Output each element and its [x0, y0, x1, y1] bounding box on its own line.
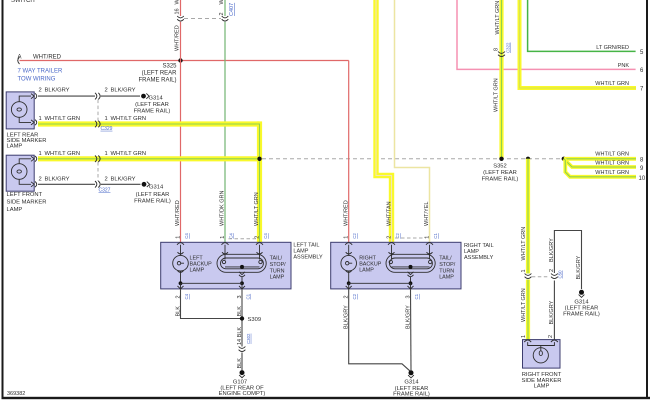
wire BLK/GRY from right front marker to G314	[553, 281, 555, 340]
splice S352	[499, 157, 503, 161]
svg-text:WHT/LT GRN: WHT/LT GRN	[45, 151, 81, 157]
wire BLK pin 2 of left tail to S309	[181, 289, 243, 319]
wire WHT/LT GRN vertical bus corner down	[257, 124, 259, 242]
pin 1 entry connector (WHT/DK GRN)	[222, 243, 229, 245]
left tail/stop/turn lamp inner shell	[221, 258, 264, 269]
wire WHT/LT GRN to pin 8	[564, 157, 636, 161]
svg-text:LAMP: LAMP	[7, 144, 23, 150]
svg-text:2: 2	[344, 295, 350, 298]
svg-text:S325: S325	[162, 64, 177, 70]
left tail lamp assembly box	[161, 242, 291, 289]
left tail/stop/turn feed wires	[225, 245, 260, 260]
svg-text:C1: C1	[433, 233, 438, 239]
svg-text:WHT/LT GRN: WHT/LT GRN	[254, 192, 260, 226]
right tail lamp assembly box	[331, 242, 461, 289]
left rear marker pin 1 connector at box	[31, 120, 37, 126]
svg-text:1: 1	[39, 116, 42, 122]
svg-text:2: 2	[548, 335, 554, 338]
inline connector C327 on WHT/LT GRN	[95, 156, 100, 163]
svg-text:1: 1	[220, 236, 226, 239]
svg-text:WHT/RED: WHT/RED	[33, 55, 62, 61]
svg-text:W: W	[219, 0, 225, 5]
wire WHT/YEL vertical	[395, 0, 430, 242]
svg-text:TOW WIRING: TOW WIRING	[18, 77, 56, 83]
svg-text:2: 2	[39, 177, 42, 183]
svg-text:(LEFT REAR: (LEFT REAR	[142, 71, 178, 77]
svg-text:TURN: TURN	[270, 268, 285, 274]
wire WHT/LT GRN to pin 10	[565, 160, 636, 177]
svg-text:C4: C4	[184, 233, 189, 239]
svg-text:WHT/LT GRN: WHT/LT GRN	[45, 116, 81, 122]
frame left border	[2, 0, 4, 398]
svg-text:WHT/LT GRN: WHT/LT GRN	[493, 78, 499, 112]
svg-text:2: 2	[549, 269, 555, 272]
svg-text:WHT/LT GRN: WHT/LT GRN	[595, 152, 629, 158]
svg-text:G314: G314	[149, 184, 164, 190]
left backup lamp wiring	[180, 245, 182, 283]
svg-text:WHT/RED: WHT/RED	[175, 200, 181, 226]
wire WHT/TAN highlighted vertical	[376, 0, 392, 242]
svg-text:FRAME RAIL): FRAME RAIL)	[393, 391, 430, 397]
svg-text:TAIL/: TAIL/	[439, 256, 452, 262]
svg-text:(LEFT REAR: (LEFT REAR	[135, 102, 169, 108]
right front marker internal wiring	[528, 342, 555, 345]
dashed connector tie left tail	[229, 238, 257, 240]
svg-text:FRAME RAIL): FRAME RAIL)	[134, 109, 171, 115]
svg-text:SWITCH: SWITCH	[11, 0, 35, 4]
splice to pins 8 9 10	[562, 157, 566, 161]
inline connector on right marker feed	[525, 274, 532, 279]
svg-text:10: 10	[639, 176, 646, 182]
splice S325	[178, 58, 182, 62]
connector C407 pin 16 inline symbol	[177, 16, 184, 21]
connector C322 pin 8 inline symbol	[498, 52, 505, 57]
svg-text:1: 1	[39, 151, 42, 157]
svg-text:2: 2	[39, 88, 42, 94]
left tail lamp common return	[239, 272, 245, 275]
svg-text:LT GRN/RED: LT GRN/RED	[596, 45, 629, 51]
svg-text:C2: C2	[352, 233, 357, 239]
svg-text:LAMP: LAMP	[439, 275, 454, 281]
right tail exit arrows	[346, 286, 414, 289]
right tail pin 1 entry connector (WHT/RED)	[345, 243, 352, 245]
svg-text:1: 1	[344, 236, 350, 239]
svg-text:C302: C302	[246, 333, 251, 344]
ground G107 (left rear of engine compt)	[240, 370, 245, 375]
left rear side marker lamp box	[6, 92, 34, 129]
svg-text:WHT/RED: WHT/RED	[175, 25, 181, 51]
svg-text:WHT/LT GRN: WHT/LT GRN	[595, 161, 629, 167]
node A connector half	[18, 57, 20, 64]
svg-text:C4: C4	[184, 293, 189, 299]
svg-text:FRAME RAIL): FRAME RAIL)	[482, 176, 519, 182]
dashed connector tie C329/C327	[97, 100, 99, 121]
right tail/stop/turn filament	[392, 266, 430, 268]
svg-text:LAMP: LAMP	[359, 267, 374, 273]
svg-text:WHT/DK GRN: WHT/DK GRN	[219, 191, 225, 226]
left front side marker lamp bulb	[11, 164, 27, 180]
svg-text:C4: C4	[263, 233, 268, 239]
svg-text:2: 2	[105, 177, 108, 183]
svg-text:BLK/GRY: BLK/GRY	[111, 177, 136, 183]
svg-text:LAMP: LAMP	[534, 384, 550, 390]
inline connector C302	[239, 347, 246, 352]
svg-text:2: 2	[175, 295, 181, 298]
svg-text:1: 1	[105, 151, 108, 157]
svg-text:S352: S352	[493, 163, 507, 169]
svg-text:S309: S309	[248, 317, 262, 323]
wire BLK/GRY to ground G314 front	[101, 183, 141, 185]
wire WHT/LT GRN vertical to right front marker	[526, 157, 530, 161]
svg-text:ASSEMBLY: ASSEMBLY	[293, 254, 323, 260]
svg-text:2: 2	[219, 12, 225, 15]
svg-text:BLK: BLK	[237, 358, 243, 369]
svg-text:C1: C1	[414, 293, 419, 299]
svg-text:1: 1	[521, 335, 527, 338]
wire BLK/GRY pin 2 right tail to G314	[349, 289, 411, 371]
svg-text:BLK: BLK	[175, 306, 181, 317]
ground G314 (left front path)	[142, 182, 147, 187]
ground G314 (left rear frame rail)	[141, 94, 146, 99]
left rear marker pin 2 connector at box	[31, 93, 37, 99]
svg-text:2: 2	[105, 88, 108, 94]
left backup lamp bulb	[173, 255, 189, 271]
left tail/stop/turn lamp outer shell	[217, 254, 266, 272]
connector C407 pin 2 inline symbol	[222, 16, 229, 21]
svg-text:BLK/GRY: BLK/GRY	[549, 238, 555, 262]
right tail pin 1 entry connector (WHT/YEL)	[426, 243, 433, 245]
svg-text:16: 16	[175, 8, 181, 14]
svg-text:8: 8	[494, 48, 500, 51]
inline connector on BLK/GRY right marker	[551, 274, 558, 279]
wire WHT/LT GRN highlighted from left rear marker	[38, 121, 260, 126]
dashed connector tie right marker	[532, 276, 549, 278]
svg-text:PNK: PNK	[618, 63, 630, 69]
svg-text:1: 1	[521, 269, 527, 272]
splice junction of marker lamp feeds	[257, 157, 261, 161]
frame bottom border	[2, 397, 650, 399]
left front side marker lamp internal wiring	[19, 159, 31, 185]
svg-text:WHT/LT GRN: WHT/LT GRN	[495, 1, 501, 35]
wire WHT/RED horizontal from 7-way trailer	[20, 60, 349, 62]
right backup lamp wiring	[348, 245, 350, 283]
svg-text:369382: 369382	[7, 391, 25, 397]
inline connector on BLK/GRY front	[95, 181, 100, 188]
wire WHT/DK GRN vertical lower segment to left tail lamp	[224, 22, 226, 243]
svg-text:BLK/GRY: BLK/GRY	[576, 255, 582, 279]
svg-text:WHT/LT GRN: WHT/LT GRN	[521, 288, 527, 322]
svg-text:BLK/GRY: BLK/GRY	[45, 88, 70, 94]
svg-text:BLK/GRY: BLK/GRY	[45, 177, 70, 183]
ground G314 (left rear frame rail) center	[409, 370, 414, 375]
svg-text:STOP/: STOP/	[270, 262, 287, 268]
inline connector on BLK/GRY	[95, 93, 100, 100]
svg-text:LAMP: LAMP	[190, 267, 205, 273]
right tail/stop/turn lamp inner shell	[390, 258, 433, 269]
svg-text:G314: G314	[404, 380, 419, 386]
svg-text:WHT/LT GRN: WHT/LT GRN	[521, 227, 527, 261]
svg-text:3: 3	[237, 295, 243, 298]
wire BLK/GRY pin 3 right tail to G314	[410, 289, 413, 370]
svg-text:(LEFT REAR: (LEFT REAR	[136, 192, 170, 198]
svg-text:ENGINE COMPT): ENGINE COMPT)	[219, 391, 266, 397]
wire WHT/LT GRN highlighted to pin 7	[520, 0, 637, 88]
right front side marker lamp box	[523, 340, 561, 369]
wire WHT/LT GRN highlighted vertical to S352	[499, 0, 503, 159]
inline connector C329 on WHT/LT GRN	[95, 121, 100, 128]
svg-text:BLK/GRY: BLK/GRY	[549, 300, 555, 324]
svg-text:C329: C329	[101, 126, 113, 132]
wire WHT/LT GRN to pin 9	[564, 159, 636, 167]
wire WHT/RED vertical lower segment to left tail lamp	[180, 22, 182, 243]
svg-text:LEFT FRONT: LEFT FRONT	[7, 192, 43, 198]
wire WHT/RED vertical to right tail lamp	[348, 61, 350, 243]
svg-text:1: 1	[175, 236, 181, 239]
wire PNK to pin 6	[457, 0, 636, 69]
svg-text:C2: C2	[352, 293, 357, 299]
svg-text:WHT/YEL: WHT/YEL	[424, 202, 430, 226]
svg-text:WHT/LT GRN: WHT/LT GRN	[595, 81, 629, 87]
right front marker bulb	[533, 348, 548, 363]
svg-text:ASSEMBLY: ASSEMBLY	[464, 255, 494, 261]
right tail/stop/turn lamp outer shell	[386, 254, 435, 272]
svg-text:LAMP: LAMP	[7, 207, 23, 213]
ground G314 (right front path)	[579, 290, 584, 295]
svg-text:FRAME RAIL): FRAME RAIL)	[134, 199, 171, 205]
svg-text:BLK/GRY: BLK/GRY	[344, 305, 350, 329]
left tail/stop/turn filament	[225, 266, 260, 268]
svg-text:WHT/RED: WHT/RED	[344, 200, 350, 226]
left front marker pin 2 connector at box	[31, 182, 37, 188]
frame right border	[646, 0, 648, 398]
svg-text:C50: C50	[558, 270, 563, 279]
svg-text:SIDE MARKER: SIDE MARKER	[7, 200, 47, 206]
right tail/stop/turn feed wires	[392, 245, 430, 260]
svg-text:W: W	[175, 0, 181, 5]
svg-text:A: A	[18, 55, 22, 61]
svg-text:(LEFT REAR: (LEFT REAR	[483, 170, 517, 176]
wire BLK pin 3 of left tail to S309	[241, 289, 243, 347]
svg-text:TAIL/: TAIL/	[270, 256, 283, 262]
wire WHT/RED vertical (pin 16) top segment	[180, 0, 182, 16]
left front marker pin 1 connector at box	[31, 156, 37, 162]
svg-text:14 BLK: 14 BLK	[237, 327, 243, 345]
splice S309	[240, 316, 244, 320]
svg-text:3: 3	[405, 295, 411, 298]
svg-text:BLK/GRY: BLK/GRY	[111, 88, 136, 94]
svg-text:7 WAY TRAILER: 7 WAY TRAILER	[18, 69, 63, 75]
left front side marker lamp box	[6, 155, 34, 191]
dashed tie between C407 pins	[184, 18, 221, 20]
svg-text:C322: C322	[505, 42, 510, 53]
wire LT GRN/RED to pin 5	[528, 0, 636, 51]
wire BLK/GRY from left front marker	[38, 183, 95, 185]
svg-text:FRAME RAIL): FRAME RAIL)	[138, 78, 176, 84]
wire WHT/LT GRN highlighted from left front marker	[38, 156, 260, 161]
svg-text:FRAME RAIL): FRAME RAIL)	[563, 311, 600, 317]
svg-text:WHT/TAN: WHT/TAN	[386, 201, 392, 226]
pin 1 entry connector (WHT/RED)	[177, 243, 184, 245]
wire BLK to ground G107	[241, 353, 243, 371]
svg-text:2: 2	[386, 236, 392, 239]
left rear side marker lamp internal wiring	[19, 96, 31, 122]
svg-text:C407: C407	[229, 3, 235, 16]
dashed connector tie right tail	[395, 237, 426, 239]
svg-text:G314: G314	[149, 96, 164, 102]
svg-text:C1: C1	[246, 293, 251, 299]
svg-text:C4: C4	[229, 233, 234, 239]
pin 2 entry connector (WHT/LT GRN)	[256, 243, 263, 245]
svg-text:BLK/GRY: BLK/GRY	[405, 305, 411, 329]
svg-text:TURN: TURN	[439, 268, 454, 274]
svg-text:LAMP: LAMP	[270, 275, 285, 281]
svg-text:C327: C327	[99, 188, 111, 194]
left tail exit arrows	[178, 286, 246, 289]
right tail lamp common return	[408, 272, 414, 275]
svg-text:1: 1	[105, 116, 108, 122]
wire WHT/DK GRN vertical (pin 2) top segment	[224, 0, 226, 16]
svg-text:WHT/LT GRN: WHT/LT GRN	[111, 151, 147, 157]
right backup lamp bulb	[341, 255, 357, 271]
wire BLK/GRY to ground G314	[101, 95, 140, 97]
right front marker entry connectors	[524, 340, 558, 342]
dashed circuit continuation line to S352	[262, 158, 564, 160]
right tail pin 2 entry connector (WHT/TAN)	[388, 243, 395, 245]
svg-text:WHT/LT GRN: WHT/LT GRN	[111, 116, 147, 122]
svg-text:WHT/LT GRN: WHT/LT GRN	[595, 170, 629, 176]
svg-text:STOP/: STOP/	[439, 262, 456, 268]
wire BLK/GRY from left rear marker	[38, 95, 95, 97]
left rear side marker lamp bulb	[11, 102, 27, 118]
svg-text:BLK: BLK	[237, 306, 243, 317]
